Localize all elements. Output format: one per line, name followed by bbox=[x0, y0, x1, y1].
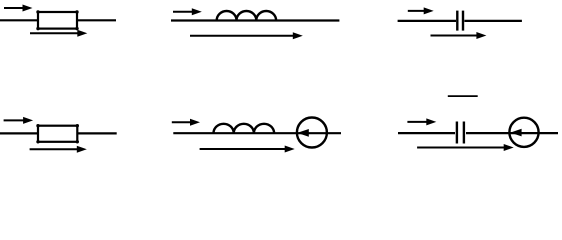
current arrow (top-middle inductor, through arrow below) bbox=[190, 32, 303, 39]
wire (top-right capacitor, right lead) bbox=[464, 20, 522, 22]
wire (top-right capacitor, left lead) bbox=[398, 20, 456, 22]
wire (bottom-left resistor, right lead) bbox=[76, 132, 116, 134]
wire (bottom-left resistor, left lead) bbox=[0, 132, 39, 134]
current arrow (top-left resistor, input) bbox=[4, 5, 33, 12]
current arrow (bottom-middle inductor, input) bbox=[172, 119, 200, 126]
capacitor C (top-right, series capacitance plates) bbox=[457, 11, 463, 31]
current arrow (top-right capacitor, through arrow below) bbox=[431, 32, 487, 39]
wire (top-left resistor, left lead) bbox=[0, 19, 39, 21]
resistor R (bottom-left, series resistance body) bbox=[36, 124, 79, 144]
wire (bottom-right capacitor, left lead) bbox=[398, 132, 455, 134]
current arrow (bottom-right capacitor, through arrow below) bbox=[417, 144, 514, 151]
current arrow (bottom-right capacitor, input) bbox=[407, 118, 436, 125]
current arrow (top-left resistor, through arrow below) bbox=[30, 30, 87, 37]
current arrow (bottom-left resistor, through arrow below) bbox=[30, 146, 87, 153]
negative sign label (above bottom-right capacitor) bbox=[448, 95, 478, 97]
wire (bottom-middle inductor, through line to source) bbox=[173, 132, 341, 134]
inductor L (top-middle, series inductance coil) bbox=[217, 11, 276, 21]
wire (top-middle inductor, through line) bbox=[171, 19, 339, 21]
current arrow (bottom-middle inductor, through arrow below) bbox=[200, 146, 295, 153]
current arrow (top-right capacitor, input) bbox=[408, 7, 434, 14]
resistor R (top-left, series resistance body) bbox=[36, 10, 78, 30]
current arrow (top-middle inductor, input) bbox=[173, 8, 202, 15]
current arrow (inside bottom-middle source, pointing left) bbox=[297, 129, 309, 137]
capacitor C (bottom-right, series capacitance plates) bbox=[457, 122, 464, 144]
current arrow (inside bottom-right source, pointing left) bbox=[510, 129, 521, 137]
current source (bottom-right, circle symbol) bbox=[509, 118, 538, 147]
current source (bottom-middle, circle symbol) bbox=[297, 118, 327, 148]
current arrow (bottom-left resistor, input) bbox=[4, 117, 33, 124]
inductor L (bottom-middle, series inductance coil) bbox=[214, 124, 275, 133]
wire (top-left resistor, right lead) bbox=[76, 19, 116, 21]
wire (bottom-right capacitor, right lead through source) bbox=[466, 132, 558, 134]
